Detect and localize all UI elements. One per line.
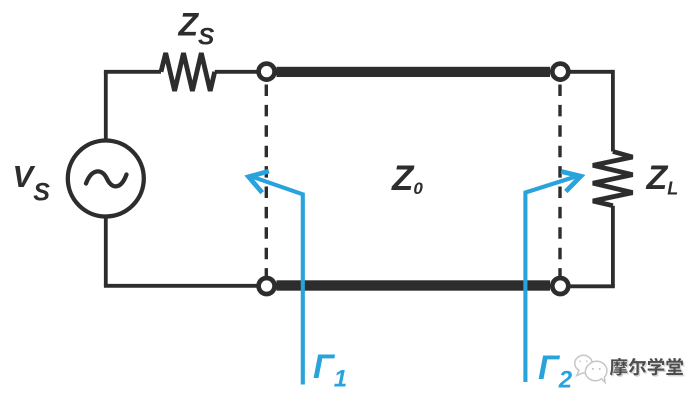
- svg-text:ZS: ZS: [178, 7, 216, 51]
- AC source sine wave symbol: [86, 171, 127, 186]
- transmission line bottom conductor bar: [277, 280, 551, 290]
- node terminal bottom-right: [552, 278, 568, 294]
- wire from resistor ZS to left input node: [215, 70, 258, 74]
- wire top rail from source corner to resistor ZS: [104, 70, 161, 74]
- watermark text emboss shadow: [611, 359, 684, 377]
- svg-text:Z0: Z0: [391, 159, 423, 198]
- resistor ZS zigzag body: [161, 53, 215, 91]
- AC source VS circle: [68, 141, 144, 217]
- arrow Gamma1 open head: [249, 171, 269, 193]
- watermark wechat bubble icon front: [585, 361, 607, 382]
- svg-text:VS: VS: [13, 159, 51, 207]
- node terminal top-left: [259, 64, 275, 80]
- svg-text:Γ1: Γ1: [313, 348, 347, 393]
- watermark wechat bubble icon back: [575, 355, 607, 382]
- resistor ZL zigzag body: [593, 152, 633, 206]
- arrow Gamma2 shaft: [525, 176, 577, 382]
- svg-text:ZL: ZL: [646, 159, 679, 199]
- wire from resistor ZL down to bottom-right corner: [611, 206, 615, 287]
- node terminal top-right: [552, 64, 568, 80]
- dashed reference plane 2: [558, 85, 561, 277]
- wire from top-right node to right corner: [570, 70, 613, 74]
- wire bottom-right corner to bottom-right node: [571, 284, 615, 288]
- wire right vertical down to resistor ZL: [611, 70, 615, 152]
- arrow Gamma1 shaft: [252, 177, 303, 385]
- transmission line top conductor bar: [277, 67, 551, 77]
- wire left vertical from source down to bottom rail: [104, 217, 108, 286]
- wire bottom rail from source corner to bottom-left node: [104, 284, 258, 288]
- svg-text:Γ2: Γ2: [538, 349, 573, 394]
- wire left vertical from top rail down to source: [104, 72, 108, 140]
- dashed reference plane 1: [265, 85, 268, 277]
- arrow Gamma2 open head: [561, 172, 581, 192]
- node terminal bottom-left: [259, 278, 275, 294]
- watermark text 摩尔学堂: [610, 358, 683, 376]
